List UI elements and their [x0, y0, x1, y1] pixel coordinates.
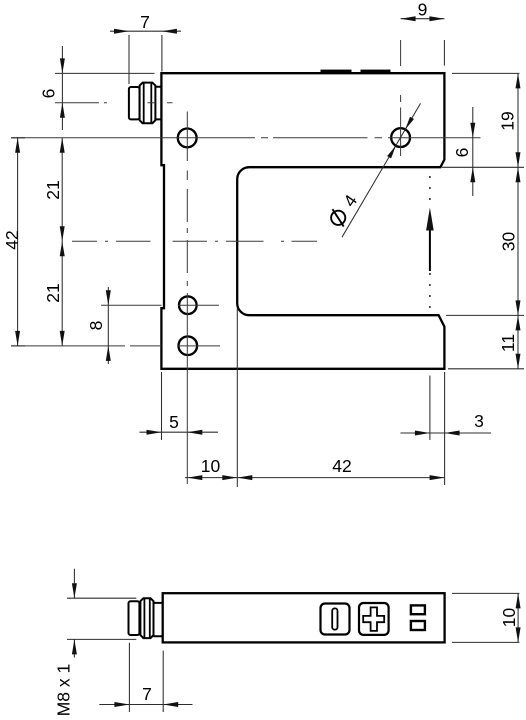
leader arrowhead upper: [405, 117, 414, 130]
bottom extension lines (left edge, slot left, beam, right edge): [162, 309, 445, 487]
mounting hole bottom-left: [179, 336, 198, 355]
svg-text:42: 42: [2, 230, 22, 249]
sensor body outline (front view): [161, 73, 444, 369]
optical beam dotted line in slot: [429, 176, 431, 206]
dimension 11: dimension line and arrows: [517, 315, 519, 368]
indicator window bar 1 (top edge): [321, 70, 352, 74]
svg-text:M8 x 1: M8 x 1: [53, 664, 73, 717]
svg-text:19: 19: [497, 111, 517, 130]
dimension 7 (side view): extension lines: [129, 643, 163, 712]
dimension 10: dimension line and arrows: [185, 477, 445, 479]
dimension 6 right: dimension line and arrows: [472, 107, 474, 196]
centre line through middle-left hole: [101, 304, 219, 306]
dimension 5: dimension line and arrows: [140, 431, 219, 433]
dimension 10 (side view): extension lines: [452, 593, 520, 642]
svg-text:3: 3: [474, 411, 484, 431]
svg-text:6: 6: [38, 89, 58, 99]
dimension 42 (left): extension lines: [11, 138, 25, 346]
LED window lower: [411, 621, 425, 630]
dimension 42 left: dimension line and arrows: [17, 138, 19, 346]
M8 connector (top view): threaded ring: [140, 83, 156, 124]
leader arrowhead lower: [387, 146, 396, 159]
mounting hole top-left: [178, 129, 197, 148]
diameter symbol: [331, 211, 345, 225]
centre line through bottom-left hole: [11, 345, 220, 347]
M8 connector (top view): neck: [155, 87, 161, 120]
M8 connector (side view): cap: [129, 601, 140, 635]
dimension 7 (connector protrusion, top): extension lines: [129, 35, 162, 84]
right extension lines (top edge, slot top, slot bottom, body bottom): [442, 73, 524, 368]
vertical centre line through top-right hole: [400, 40, 402, 156]
horizontal centre line through top holes: [11, 137, 481, 139]
svg-text:7: 7: [140, 12, 150, 32]
dimension 42 bottom: arrows: [237, 475, 252, 480]
hole middle-left: [179, 296, 197, 314]
vertical centre line through left holes: [186, 112, 188, 485]
main horizontal centre line of slot: [72, 240, 317, 242]
dimension M8x1: extension lines: [67, 598, 136, 639]
plus icon inside button: [363, 607, 384, 631]
svg-text:21: 21: [43, 283, 63, 302]
M8 connector (side view): threaded ring: [140, 598, 153, 638]
svg-text:10: 10: [499, 608, 519, 628]
dimension 3: dimension line and arrows: [401, 432, 492, 434]
svg-text:30: 30: [498, 232, 518, 252]
svg-text:9: 9: [418, 0, 428, 20]
dimension 6: dimension line and arrows: [61, 46, 63, 130]
LED window upper: [411, 605, 425, 614]
dimension 9: dimension line and arrows: [401, 18, 445, 20]
M8 connector (top view): thread lines: [144, 83, 152, 123]
plus button: [359, 603, 389, 635]
svg-text:5: 5: [169, 412, 179, 432]
svg-text:11: 11: [498, 334, 518, 352]
dimension 21 lower: arrows: [60, 241, 65, 256]
beam direction arrow: [429, 229, 431, 271]
dimension M8x1: dimension line and arrows: [73, 569, 75, 658]
dimension 9 (hole to right edge): extension line: [443, 40, 445, 66]
svg-text:6: 6: [452, 148, 472, 158]
svg-text:7: 7: [142, 684, 152, 704]
M8 connector (side view): thread lines: [144, 599, 149, 638]
M8 connector (top view): cap: [129, 87, 140, 119]
svg-text:21: 21: [43, 180, 63, 199]
svg-text:42: 42: [332, 456, 351, 476]
dimension 30: dimension line and arrows: [517, 167, 519, 315]
dimension 21 upper: dimension line and arrows: [61, 138, 63, 346]
dimension 7 side: dimension line and arrows: [99, 704, 192, 706]
dimension 8: dimension line and arrows: [107, 287, 109, 364]
dimension 10 side: dimension line and arrows: [517, 593, 519, 642]
M8 connector (side view): neck: [154, 603, 163, 636]
dimension 6 (top edge to connector axis): extension lines: [55, 72, 155, 74]
mounting hole top-right: [391, 128, 410, 147]
dimension 7: dimension line and arrows: [110, 30, 181, 32]
svg-text:8: 8: [86, 321, 106, 331]
svg-text:10: 10: [201, 456, 221, 476]
dimension 19: dimension line and arrows: [517, 73, 519, 167]
bar icon inside button: [332, 608, 337, 629]
diameter leader line: [342, 103, 421, 237]
sensor body outline (side view): [163, 593, 445, 642]
teach button (bar icon): [321, 604, 350, 635]
indicator window bar 2 (top edge): [361, 70, 391, 74]
